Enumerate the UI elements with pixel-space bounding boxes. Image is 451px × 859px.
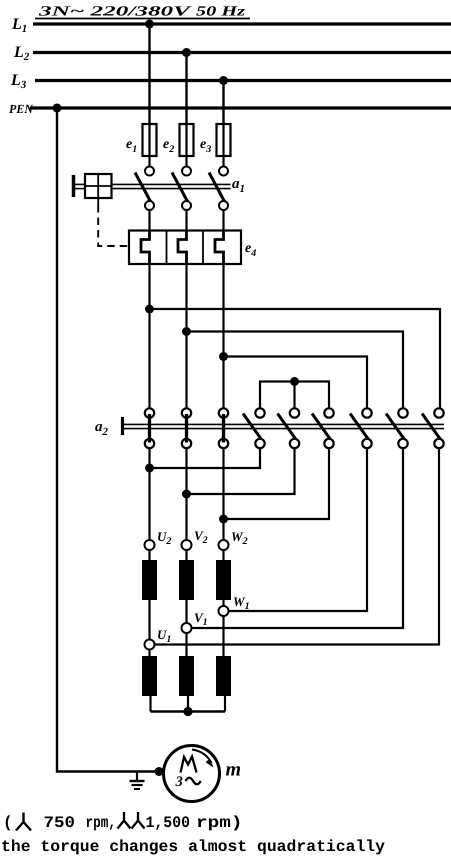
motor winding W2-W1 upper half — [216, 560, 231, 600]
junction node W lower — [219, 515, 228, 524]
switch a1 pole 3 — [209, 167, 228, 211]
wire V2 line to a2 contact 5 — [187, 449, 295, 495]
wire L1 to fuse e1 — [148, 24, 150, 124]
svg-text:750: 750 — [44, 814, 76, 832]
ground — [130, 772, 145, 790]
wire L3 to fuse e3 — [222, 81, 224, 125]
wire phase V to a2 contact 8 — [187, 332, 404, 408]
wire a1 pole3 to e4 — [222, 210, 224, 240]
switch a2 contact 7 (open) — [350, 408, 372, 448]
svg-text:the torque changes almost quad: the torque changes almost quadratically — [1, 838, 385, 856]
dashed mechanical link a1 to e4 — [98, 198, 128, 246]
switch a1 pole 1 — [135, 167, 154, 211]
thermal overload relay e4 — [129, 231, 241, 265]
wire U2 into winding — [148, 550, 150, 560]
wire e4 to a2 contact 2 — [185, 264, 187, 408]
switch a2 contact 8 (open) — [386, 408, 408, 448]
wire windings to common bus — [151, 696, 226, 712]
svg-text:a1: a1 — [232, 176, 245, 195]
svg-text:e1: e1 — [126, 137, 137, 155]
wire a2 contact3 to W2 — [222, 449, 224, 541]
terminal U1 — [145, 640, 155, 650]
motor winding V lower half — [179, 656, 194, 696]
terminal V1 — [182, 623, 192, 633]
junction L3 phase tap — [219, 76, 228, 85]
svg-text:rpm,: rpm, — [86, 814, 117, 832]
junction node W phase upper — [219, 352, 228, 361]
svg-text:(: ( — [3, 814, 13, 832]
svg-text:rpm): rpm) — [196, 814, 243, 832]
svg-text:e4: e4 — [245, 241, 256, 259]
junction motor terminal — [155, 767, 164, 776]
bus L1 — [33, 22, 451, 25]
junction node U phase upper — [145, 305, 154, 314]
wire W2 line to a2 contact 6 — [224, 449, 330, 520]
wire U1 to a2 contact 9 — [155, 449, 440, 645]
wire a1 pole1 to e4 — [148, 210, 150, 240]
wire fuse e2 to switch a1 — [185, 156, 187, 167]
wire winding to W1 — [222, 600, 224, 606]
fuse e3 — [217, 124, 231, 156]
wire e4 to a2 contact 3 — [222, 264, 224, 408]
caption speed ratings — [3, 812, 243, 832]
switch a1 operator handle — [74, 174, 112, 198]
terminal W2 — [219, 540, 229, 550]
wire U2 line to a2 contact 4 — [150, 449, 261, 469]
wire W1 into lower winding — [222, 616, 224, 656]
switch a2 contact 6 (open) — [312, 408, 334, 448]
terminal U2 — [145, 540, 155, 550]
motor winding V2-V1 upper half — [179, 560, 194, 600]
wire a2 contact1 to U2 — [148, 449, 150, 541]
wire U1 into lower winding — [148, 650, 150, 657]
wire W1 to a2 contact 7 — [229, 449, 368, 612]
motor winding U lower half — [142, 656, 157, 696]
svg-text:PEN: PEN — [9, 102, 34, 116]
switch a2 contact 5 (open) — [278, 408, 300, 448]
svg-text:e2: e2 — [163, 137, 174, 155]
terminal W1 — [219, 606, 229, 616]
wire phase U to a2 contact 9 — [150, 309, 441, 408]
motor winding U2-U1 upper half — [142, 560, 157, 600]
junction node V phase upper — [182, 327, 191, 336]
svg-text:L2: L2 — [13, 44, 30, 63]
fuse e2 — [180, 124, 194, 156]
motor m — [164, 746, 220, 802]
switch a2 contact 3 (closed) — [219, 408, 228, 448]
wire phase W to a2 contact 7 — [224, 357, 368, 408]
junction L2 phase tap — [182, 48, 191, 57]
bus L2 — [33, 51, 451, 54]
wire V2 into winding — [185, 550, 187, 560]
svg-text:e3: e3 — [200, 137, 211, 155]
switch a2 shaft — [123, 424, 445, 428]
junction L1 phase tap — [145, 20, 154, 29]
switch a1 shaft — [112, 184, 231, 188]
junction winding common — [183, 707, 192, 716]
switch a2 contact 9 (open) — [422, 408, 444, 448]
wire W2 into winding — [222, 550, 224, 560]
fuse e1 — [143, 124, 157, 156]
wire a2 contact2 to V2 — [185, 449, 187, 541]
junction node U lower — [145, 464, 154, 473]
svg-text:1,500: 1,500 — [146, 814, 191, 832]
wire PEN down to motor — [57, 108, 163, 772]
svg-text:a2: a2 — [95, 419, 109, 438]
switch a2 contact 4 (open) — [243, 408, 265, 448]
junction node V lower — [182, 490, 191, 499]
switch a2 contact 2 (closed) — [182, 408, 191, 448]
switch a1 pole 2 — [172, 167, 191, 211]
svg-text:L3: L3 — [10, 72, 27, 91]
svg-text:3: 3 — [175, 774, 183, 790]
terminal V2 — [182, 540, 192, 550]
svg-text:m: m — [226, 759, 242, 781]
wire e4 to a2 contact 1 — [148, 264, 150, 408]
junction PEN tap — [53, 104, 62, 113]
junction star bridge — [290, 377, 299, 386]
bus PEN — [30, 106, 451, 109]
wire L2 to fuse e2 — [185, 53, 187, 125]
svg-text:L1: L1 — [11, 16, 27, 35]
svg-text:V1: V1 — [194, 610, 208, 628]
wire a1 pole2 to e4 — [185, 210, 187, 240]
switch a2 contact 1 (closed) — [145, 408, 154, 448]
wire V1 to a2 contact 8 — [192, 449, 404, 629]
switch a2 operator bar — [121, 417, 124, 435]
motor winding W lower half — [216, 656, 231, 696]
wire V1 into lower winding — [185, 633, 187, 656]
star-point bridge wire of a2 contacts 4-6 — [260, 382, 329, 408]
svg-text:3N~ 220/380V: 3N~ 220/380V — [37, 5, 193, 20]
wire fuse e1 to switch a1 — [148, 156, 150, 167]
svg-text:50 Hz: 50 Hz — [196, 5, 246, 20]
wire fuse e3 to switch a1 — [222, 156, 224, 167]
bus L3 — [35, 79, 451, 82]
net label 3N~ 220/380V 50 Hz — [35, 5, 250, 20]
wire winding to V1 — [185, 600, 187, 623]
svg-text:V2: V2 — [194, 528, 208, 546]
svg-text:W2: W2 — [231, 529, 248, 547]
svg-text:U2: U2 — [157, 529, 171, 547]
wire winding to U1 — [148, 600, 150, 640]
svg-text:W1: W1 — [233, 594, 250, 612]
svg-text:U1: U1 — [157, 627, 171, 645]
